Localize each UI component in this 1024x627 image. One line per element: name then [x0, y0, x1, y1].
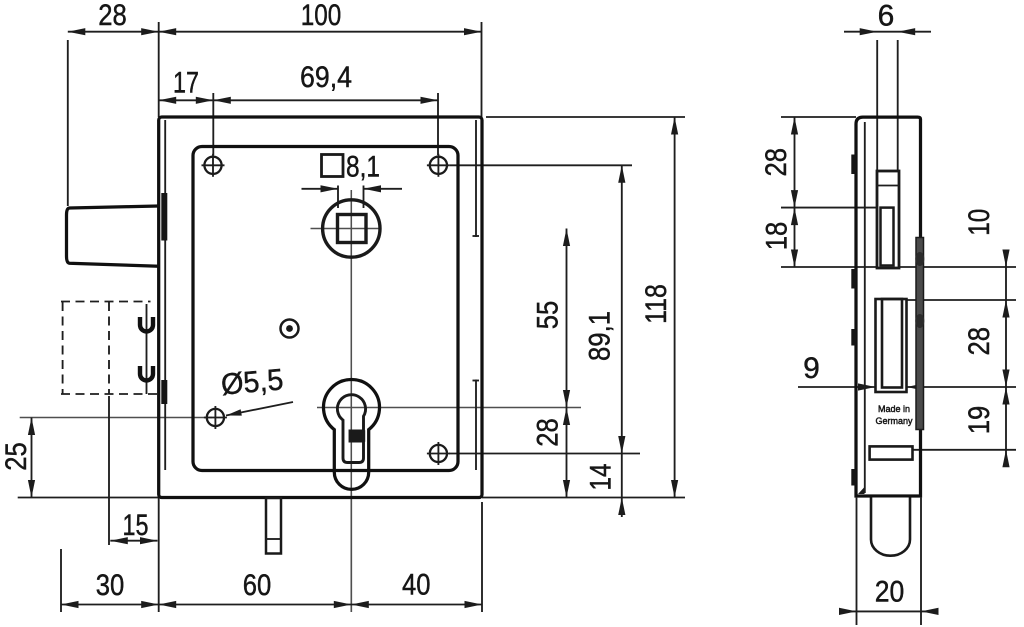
- centre line spindle horizontal: [311, 228, 382, 230]
- svg-text:Germany: Germany: [875, 416, 913, 426]
- ext line door inner edge for 15: [108, 396, 110, 545]
- svg-text:118: 118: [639, 284, 673, 324]
- keyhole cylinder outline: [323, 380, 379, 490]
- ext line door left for 30: [60, 549, 62, 612]
- centre line keyhole horizontal: [317, 407, 581, 409]
- side body outline: [856, 117, 921, 496]
- screw hole top right: [430, 157, 447, 174]
- svg-text:15: 15: [123, 508, 149, 541]
- ext line bolt top 10/28: [876, 299, 1017, 301]
- latch head line: [877, 185, 899, 187]
- dim line 9 arrows: [858, 383, 876, 390]
- door leaf dashed bottom: [61, 393, 158, 395]
- ext line slot 19 bottom: [912, 449, 1016, 451]
- ext line latch step 28/18: [781, 207, 900, 209]
- case left wall inner line: [164, 120, 166, 470]
- side faceplate inner line: [864, 122, 866, 493]
- door leaf dashed left: [62, 302, 64, 394]
- dim line 118 vertical: [674, 117, 676, 498]
- ext line latch bottom 18/10: [781, 266, 1016, 268]
- dim line 28+100 top: [68, 31, 482, 33]
- ext line 20 dim right: [920, 498, 922, 625]
- dim line 6 top: [844, 31, 931, 33]
- screw slot side view: [870, 446, 913, 459]
- svg-text:25: 25: [0, 442, 32, 471]
- svg-text:28: 28: [98, 0, 127, 31]
- svg-text:Made in: Made in: [878, 404, 910, 414]
- svg-text:19: 19: [962, 406, 995, 435]
- keyhole cutout: [337, 395, 365, 463]
- spring clip bar upper left edge: [161, 193, 167, 241]
- svg-text:14: 14: [583, 463, 617, 490]
- dim line 10+28+19 side right: [1005, 250, 1007, 465]
- svg-text:28: 28: [759, 148, 792, 177]
- ext line case left top: [158, 22, 160, 117]
- case right wall inner line upper: [475, 120, 477, 237]
- svg-text:18: 18: [760, 222, 793, 251]
- lock case outline front: [159, 117, 482, 498]
- svg-text:69,4: 69,4: [300, 61, 352, 95]
- ext line left of 28 dim: [67, 40, 69, 206]
- ext line keyhole axis bottom: [350, 493, 352, 612]
- leader line dia 5.5: [226, 402, 293, 416]
- svg-text:60: 60: [243, 568, 272, 601]
- dim line 28+18 side left: [794, 117, 796, 267]
- svg-text:40: 40: [402, 568, 431, 601]
- dim line 15: [110, 540, 157, 542]
- clip rail line: [146, 304, 148, 394]
- svg-text:30: 30: [96, 568, 125, 601]
- svg-text:55: 55: [531, 301, 564, 330]
- ext line case top to 118 dim: [486, 116, 685, 118]
- ext line bottom screw to 89.1 dim: [449, 453, 640, 455]
- clip hook lower: [140, 366, 153, 381]
- strike plate bar: [916, 238, 924, 430]
- screw hole dia 5.5: [207, 409, 224, 426]
- svg-text:20: 20: [875, 574, 904, 608]
- ext line 8.1 left: [337, 186, 339, 209]
- bottom cylinder side view: [871, 498, 910, 556]
- ext line 8.1 right: [363, 186, 365, 209]
- deadbolt outer side view: [876, 299, 907, 392]
- spindle circle: [323, 200, 380, 257]
- door handle knob: [67, 206, 159, 266]
- deadbolt inner side view: [882, 299, 902, 388]
- case right wall inner line lower: [475, 380, 477, 471]
- latch outer side view: [877, 171, 899, 268]
- bottom fixing pin: [266, 498, 281, 554]
- square symbol 8.1: [322, 155, 344, 177]
- svg-text:10: 10: [962, 209, 996, 236]
- door leaf dashed inner: [108, 302, 110, 394]
- plate rivet upper: [915, 252, 924, 266]
- svg-text:17: 17: [173, 66, 199, 99]
- ext line screw2 vertical: [437, 93, 439, 155]
- dim line 89.1+14 vertical: [621, 165, 623, 517]
- svg-text:9: 9: [803, 352, 820, 385]
- dim line 20 bottom: [840, 610, 939, 612]
- clip hook upper: [140, 317, 153, 332]
- screw hole top left: [204, 157, 221, 174]
- cover plate rounded rect: [193, 147, 458, 471]
- dim line 25 vertical: [31, 418, 33, 498]
- pivot stud: [281, 320, 299, 338]
- ext line case left bottom: [158, 498, 160, 613]
- ext line 20 dim left: [856, 498, 858, 625]
- side corner wedge: [858, 487, 865, 494]
- spindle square 8.1: [338, 215, 367, 243]
- side clip bump 3: [851, 329, 856, 346]
- ext line case right top: [481, 22, 483, 117]
- svg-text:28: 28: [531, 418, 564, 447]
- ext line case bottom left for 25: [18, 497, 159, 499]
- ext line 6 dim left: [876, 40, 878, 171]
- ext line top screws to 89.1 dim: [450, 164, 632, 166]
- side clip bump 4: [851, 469, 856, 486]
- ext line bolt bottom 9 leader: [798, 386, 1016, 388]
- dim line 8.1 outside arrows: [302, 188, 339, 190]
- svg-text:8,1: 8,1: [346, 149, 380, 183]
- ext line side body top left: [781, 116, 856, 118]
- svg-text:100: 100: [301, 0, 342, 32]
- side clip bump 1: [851, 155, 856, 175]
- door leaf dashed top: [61, 301, 151, 303]
- ext line case right bottom: [481, 502, 483, 612]
- svg-text:89,1: 89,1: [583, 311, 616, 361]
- ext line screw1 vertical: [212, 93, 214, 155]
- dim line 30+60+40 bottom: [61, 604, 482, 606]
- screw hole bottom right: [430, 445, 447, 462]
- ext line screw 5.5 centre for 25: [20, 417, 212, 419]
- spring clip bar lower left edge: [161, 380, 167, 404]
- dim line 17+69.4: [159, 99, 438, 101]
- dim line 55+28 vertical: [566, 229, 568, 498]
- side clip bump 2: [851, 269, 856, 289]
- centre line vertical lock axis: [350, 190, 352, 612]
- svg-text:28: 28: [962, 327, 995, 356]
- ext line 6 dim right: [897, 40, 899, 171]
- plate rivet lower: [915, 314, 924, 328]
- svg-text:Ø5,5: Ø5,5: [220, 363, 285, 402]
- latch inner rod: [881, 208, 894, 266]
- svg-text:6: 6: [878, 0, 895, 33]
- ext line case bottom right: [482, 497, 685, 499]
